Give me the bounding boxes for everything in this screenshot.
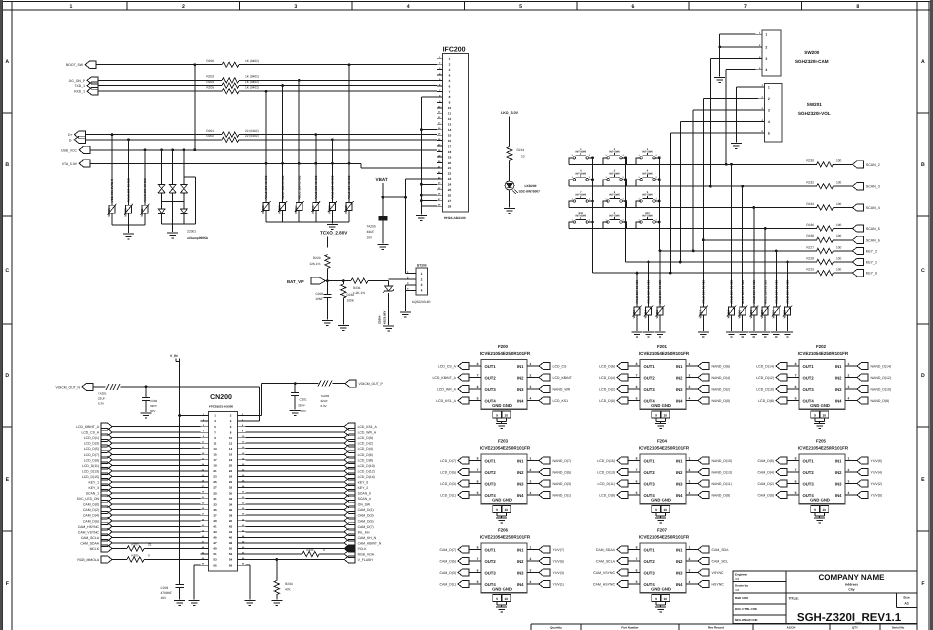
svg-text:R229: R229 (806, 268, 814, 272)
svg-text:C200: C200 (315, 292, 323, 296)
svg-text:Engineer: Engineer (735, 573, 748, 577)
svg-text:IN4: IN4 (676, 582, 683, 587)
svg-text:42: 42 (229, 525, 233, 529)
svg-text:10NF: 10NF (315, 297, 323, 301)
svg-text:SCAN_4: SCAN_4 (358, 497, 371, 501)
svg-text:IN1: IN1 (676, 547, 683, 552)
svg-text:5: 5 (477, 491, 479, 495)
svg-text:7: 7 (744, 4, 747, 10)
svg-text:KEY_2: KEY_2 (358, 486, 369, 490)
svg-text:1: 1 (848, 456, 850, 460)
svg-text:1K (0402): 1K (0402) (245, 75, 259, 79)
svg-text:21: 21 (448, 166, 452, 170)
svg-text:R203: R203 (206, 75, 214, 79)
svg-text:ICVE21054E250R101FR: ICVE21054E250R101FR (480, 351, 531, 356)
svg-text:21: 21 (213, 469, 217, 473)
svg-text:1: 1 (421, 272, 423, 276)
svg-text:Part Number: Part Number (621, 626, 639, 630)
svg-text:VR207: VR207 (294, 205, 298, 214)
svg-text:LCD_D(10): LCD_D(10) (756, 388, 774, 392)
svg-text:C203: C203 (161, 586, 169, 590)
svg-text:LCD_D(5): LCD_D(5) (440, 471, 456, 475)
svg-text:10V: 10V (161, 596, 168, 600)
svg-text:CAM_D(5): CAM_D(5) (358, 519, 374, 523)
svg-text:LCD_KS1_A: LCD_KS1_A (358, 425, 378, 429)
svg-text:INT-SW6: INT-SW6 (576, 151, 587, 154)
svg-text:INT-SW6: INT-SW6 (609, 194, 620, 197)
svg-text:OUT1: OUT1 (644, 547, 656, 552)
svg-text:LCD_D(11): LCD_D(11) (598, 482, 615, 486)
svg-text:LCD_KS1: LCD_KS1 (553, 399, 569, 403)
svg-text:AVLC 160-03 063: AVLC 160-03 063 (143, 178, 147, 202)
svg-text:36: 36 (229, 508, 233, 512)
svg-text:C: C (5, 268, 9, 274)
svg-text:4700NF: 4700NF (161, 591, 172, 595)
svg-text:SCAN_6: SCAN_6 (866, 238, 880, 242)
svg-text:2: 2 (530, 557, 532, 561)
svg-text:50V: 50V (301, 409, 306, 413)
svg-text:4: 4 (530, 491, 532, 495)
svg-text:INT-SW6: INT-SW6 (642, 172, 653, 175)
svg-text:8: 8 (795, 362, 797, 366)
svg-text:GND GND: GND GND (651, 403, 671, 408)
svg-text:12K,1%: 12K,1% (309, 262, 320, 266)
svg-text:RGB_MMOLA: RGB_MMOLA (77, 558, 99, 562)
svg-text:IN3: IN3 (517, 387, 524, 392)
svg-text:IN3: IN3 (676, 387, 683, 392)
svg-text:26: 26 (229, 480, 233, 484)
svg-text:24: 24 (448, 183, 452, 187)
svg-text:CAM_D(1): CAM_D(1) (439, 583, 456, 587)
svg-text:8: 8 (477, 456, 479, 460)
svg-text:KEY_0: KEY_0 (358, 481, 369, 485)
svg-text:R203: R203 (131, 543, 139, 547)
svg-text:52: 52 (229, 552, 233, 556)
svg-text:100: 100 (836, 268, 842, 272)
svg-text:AVLC 160-03 063: AVLC 160-03 063 (786, 280, 790, 304)
svg-text:CAM_SDAA: CAM_SDAA (80, 541, 99, 545)
svg-text:CAM_SCLA: CAM_SCLA (81, 536, 100, 540)
svg-text:NAND_D(3): NAND_D(3) (553, 482, 572, 486)
svg-text:100: 100 (836, 234, 842, 238)
svg-text:2: 2 (530, 468, 532, 472)
svg-text:OUT3: OUT3 (803, 387, 815, 392)
svg-text:12: 12 (229, 441, 233, 445)
svg-text:4: 4 (689, 580, 691, 584)
svg-text:LCD_D(0): LCD_D(0) (599, 399, 615, 403)
svg-text:VOICM_OUT_N: VOICM_OUT_N (56, 385, 81, 389)
svg-text:GND GND: GND GND (492, 403, 512, 408)
svg-text:5: 5 (449, 79, 451, 83)
svg-text:NAND_WR: NAND_WR (553, 388, 571, 392)
svg-text:YUV(2): YUV(2) (871, 482, 882, 486)
svg-text:AVLC 160-03 063: AVLC 160-03 063 (127, 178, 131, 202)
svg-text:LCD_D(13): LCD_D(13) (82, 469, 99, 473)
svg-text:VR210: VR210 (124, 208, 128, 217)
svg-text:RXD_1: RXD_1 (74, 90, 85, 94)
svg-text:R238: R238 (806, 234, 814, 238)
svg-text:8: 8 (477, 362, 479, 366)
svg-text:AVLC 160-03 063: AVLC 160-03 063 (763, 280, 767, 304)
svg-text:48: 48 (229, 541, 233, 545)
svg-text:3: 3 (848, 479, 850, 483)
svg-text:SCAN_2: SCAN_2 (866, 163, 880, 167)
svg-text:NAND_D(14): NAND_D(14) (871, 365, 892, 369)
svg-text:SCAN_1: SCAN_1 (86, 492, 99, 496)
svg-text:43: 43 (213, 530, 217, 534)
svg-text:TITLE:: TITLE: (789, 597, 799, 601)
svg-text:City: City (848, 587, 854, 591)
svg-text:OUT1: OUT1 (644, 458, 656, 463)
svg-text:8: 8 (636, 456, 638, 460)
svg-text:F206: F206 (498, 528, 509, 533)
svg-text:LCD_D(3): LCD_D(3) (440, 482, 456, 486)
svg-text:F205: F205 (816, 439, 827, 444)
svg-text:16: 16 (448, 139, 452, 143)
svg-text:8: 8 (636, 545, 638, 549)
svg-text:C: C (921, 268, 925, 274)
svg-text:2: 2 (530, 373, 532, 377)
svg-text:100: 100 (836, 159, 842, 163)
svg-text:HSYNC: HSYNC (712, 583, 725, 587)
svg-text:D+: D+ (68, 133, 72, 137)
svg-text:OUT1: OUT1 (485, 458, 497, 463)
svg-text:Quantity: Quantity (550, 626, 562, 630)
svg-text:r04: r04 (735, 577, 740, 581)
svg-text:SCAN_4: SCAN_4 (866, 206, 880, 210)
svg-text:5: 5 (768, 131, 770, 135)
svg-text:2: 2 (768, 97, 770, 101)
svg-text:VR208: VR208 (311, 205, 315, 214)
svg-text:6: 6 (636, 568, 638, 572)
svg-text:SW200: SW200 (804, 50, 820, 55)
svg-text:IN4: IN4 (517, 398, 524, 403)
svg-text:IN1: IN1 (517, 458, 524, 463)
svg-text:OUT1: OUT1 (644, 364, 656, 369)
svg-text:27: 27 (448, 199, 452, 203)
svg-text:VTA_5.0V: VTA_5.0V (62, 162, 78, 166)
svg-text:LCD_D(7): LCD_D(7) (84, 453, 99, 457)
svg-text:6.3V: 6.3V (321, 404, 327, 408)
svg-text:R231: R231 (353, 286, 361, 290)
svg-text:GND GND: GND GND (651, 587, 671, 592)
svg-text:LCD_D(12): LCD_D(12) (358, 469, 375, 473)
svg-text:9: 9 (814, 508, 816, 512)
svg-text:44: 44 (229, 530, 233, 534)
svg-text:OUT3: OUT3 (644, 481, 656, 486)
svg-text:13: 13 (213, 447, 217, 451)
svg-text:100: 100 (836, 181, 842, 185)
svg-text:CAM_D(2): CAM_D(2) (83, 508, 99, 512)
svg-text:33UF: 33UF (367, 230, 375, 234)
svg-text:V_FLASH: V_FLASH (358, 558, 374, 562)
svg-text:8: 8 (636, 362, 638, 366)
svg-text:D-: D- (69, 138, 73, 142)
svg-text:LCD_D(1): LCD_D(1) (440, 494, 456, 498)
svg-text:IFC200: IFC200 (443, 47, 466, 54)
svg-text:IN3: IN3 (835, 481, 842, 486)
svg-text:LCD_D(9): LCD_D(9) (599, 494, 615, 498)
svg-text:41: 41 (213, 525, 217, 529)
svg-text:OUT2: OUT2 (485, 470, 497, 475)
svg-text:22 (0402): 22 (0402) (245, 134, 259, 138)
svg-text:17: 17 (448, 144, 452, 148)
svg-text:47: 47 (213, 541, 217, 545)
svg-text:KQ52233-3R: KQ52233-3R (412, 300, 431, 304)
svg-text:QTY: QTY (852, 626, 858, 630)
svg-text:CAM_SCLA: CAM_SCLA (596, 560, 616, 564)
svg-text:2: 2 (848, 373, 850, 377)
svg-text:50: 50 (229, 547, 233, 551)
svg-text:1: 1 (765, 33, 767, 37)
svg-text:KEY_1: KEY_1 (88, 481, 99, 485)
svg-text:OUT3: OUT3 (485, 570, 497, 575)
svg-text:10: 10 (504, 597, 508, 601)
svg-text:AVLC 160-03 063: AVLC 160-03 063 (702, 280, 706, 304)
svg-text:LCD_D(11): LCD_D(11) (82, 464, 99, 468)
svg-text:AVLC 160-03 063: AVLC 160-03 063 (314, 175, 318, 199)
svg-text:R235: R235 (306, 548, 314, 552)
svg-text:OUT3: OUT3 (803, 481, 815, 486)
svg-text:10: 10 (822, 508, 826, 512)
svg-text:CAM_D(0): CAM_D(0) (83, 503, 99, 507)
svg-text:15: 15 (448, 134, 452, 138)
svg-text:CAM_D(6): CAM_D(6) (757, 459, 774, 463)
svg-text:IN2: IN2 (676, 375, 683, 380)
svg-text:CAM_VSYNC: CAM_VSYNC (78, 530, 100, 534)
svg-text:51: 51 (213, 552, 217, 556)
svg-text:10: 10 (448, 106, 452, 110)
svg-text:BT200: BT200 (417, 263, 427, 267)
svg-text:A1/CH: A1/CH (787, 626, 796, 630)
svg-text:3: 3 (530, 568, 532, 572)
svg-text:AVLC 160-03 063: AVLC 160-03 063 (658, 280, 662, 304)
svg-text:50V: 50V (150, 409, 155, 413)
svg-text:IN2: IN2 (676, 470, 683, 475)
svg-text:CAM_KH_N: CAM_KH_N (358, 536, 377, 540)
svg-text:IN2: IN2 (517, 375, 524, 380)
svg-text:ICVE21054E250R101FR: ICVE21054E250R101FR (480, 534, 531, 539)
svg-text:CAM_SDAA: CAM_SDAA (596, 548, 616, 552)
svg-text:30: 30 (229, 491, 233, 495)
svg-text:YUV(0): YUV(0) (871, 494, 882, 498)
svg-text:FPC55531-K5000: FPC55531-K5000 (209, 405, 234, 409)
svg-text:3: 3 (689, 385, 691, 389)
svg-text:LCD_D(5): LCD_D(5) (84, 447, 99, 451)
svg-text:LCD_D(10): LCD_D(10) (358, 464, 375, 468)
svg-text:14: 14 (229, 447, 233, 451)
svg-text:ICVE21054E250R101FR: ICVE21054E250R101FR (798, 445, 849, 450)
svg-text:7: 7 (477, 373, 479, 377)
svg-text:4: 4 (421, 289, 423, 293)
svg-text:10: 10 (504, 414, 508, 418)
svg-text:TA201: TA201 (98, 392, 107, 396)
svg-text:R229: R229 (313, 256, 321, 260)
svg-text:YUV(1): YUV(1) (553, 583, 564, 587)
svg-text:KDZ6.8EV: KDZ6.8EV (383, 310, 387, 324)
svg-text:24: 24 (229, 475, 233, 479)
svg-text:LCD_D(8): LCD_D(8) (758, 399, 774, 403)
svg-text:3: 3 (530, 479, 532, 483)
svg-text:LKD200: LKD200 (525, 184, 537, 188)
svg-text:VR212: VR212 (344, 205, 348, 214)
svg-text:53: 53 (213, 558, 217, 562)
svg-text:OUT2: OUT2 (644, 559, 656, 564)
svg-text:LCD_CS_A: LCD_CS_A (438, 365, 457, 369)
svg-text:R&D CHK: R&D CHK (735, 596, 749, 600)
svg-text:6: 6 (477, 385, 479, 389)
svg-text:LCD_D(14): LCD_D(14) (358, 475, 375, 479)
svg-text:2: 2 (449, 63, 451, 67)
svg-text:6: 6 (636, 479, 638, 483)
svg-text:AVLC 160-03 063: AVLC 160-03 063 (647, 280, 651, 304)
svg-text:7: 7 (636, 557, 638, 561)
svg-text:7: 7 (477, 468, 479, 472)
svg-text:CAM_D(0): CAM_D(0) (757, 494, 774, 498)
svg-text:IN2: IN2 (517, 559, 524, 564)
svg-text:1: 1 (530, 362, 532, 366)
svg-text:R205: R205 (206, 85, 214, 89)
svg-text:F: F (921, 581, 924, 587)
svg-text:VR206: VR206 (738, 310, 742, 319)
svg-text:1: 1 (689, 362, 691, 366)
svg-text:39: 39 (213, 519, 217, 523)
svg-text:BAT_VF: BAT_VF (287, 279, 304, 284)
svg-text:4: 4 (765, 68, 767, 72)
svg-text:100: 100 (836, 245, 842, 249)
svg-text:2: 2 (765, 45, 767, 49)
svg-text:F201: F201 (657, 344, 668, 349)
svg-text:VR217: VR217 (698, 310, 702, 319)
svg-text:NAND_D(2): NAND_D(2) (712, 388, 731, 392)
svg-text:6: 6 (477, 568, 479, 572)
svg-text:R205: R205 (131, 554, 139, 558)
svg-text:VSYNC: VSYNC (712, 571, 725, 575)
svg-text:R213: R213 (517, 148, 525, 152)
svg-text:CAM_D(4): CAM_D(4) (83, 514, 99, 518)
svg-text:5: 5 (636, 491, 638, 495)
svg-text:20: 20 (229, 464, 233, 468)
svg-text:31: 31 (213, 497, 217, 501)
svg-text:LCD_D(4): LCD_D(4) (599, 376, 615, 380)
svg-text:R230: R230 (806, 159, 814, 163)
svg-text:LCD_D(2): LCD_D(2) (599, 388, 615, 392)
svg-text:VR208: VR208 (760, 310, 764, 319)
svg-text:AVLC 160-03 063: AVLC 160-03 063 (297, 175, 301, 199)
svg-text:Serial No: Serial No (892, 626, 905, 630)
svg-text:8: 8 (856, 4, 859, 10)
svg-text:28: 28 (448, 205, 452, 209)
svg-text:6: 6 (477, 479, 479, 483)
svg-text:YUV(3): YUV(3) (553, 571, 564, 575)
svg-text:AVLC 160-03 063: AVLC 160-03 063 (264, 175, 268, 199)
svg-text:LCD_D(4): LCD_D(4) (358, 447, 373, 451)
svg-text:10: 10 (504, 508, 508, 512)
svg-text:7: 7 (449, 90, 451, 94)
svg-text:V_IN: V_IN (170, 354, 178, 358)
svg-text:IN3: IN3 (676, 570, 683, 575)
svg-text:10: 10 (663, 414, 667, 418)
svg-text:6: 6 (449, 84, 451, 88)
svg-text:YUV(7): YUV(7) (553, 548, 564, 552)
svg-text:VR209: VR209 (783, 310, 787, 319)
svg-text:uClamp0505A: uClamp0505A (187, 236, 209, 240)
svg-text:Address: Address (845, 583, 858, 587)
svg-text:CAM_HSYNC: CAM_HSYNC (593, 583, 615, 587)
svg-text:LCD_CS_A: LCD_CS_A (81, 431, 99, 435)
svg-text:6: 6 (636, 385, 638, 389)
svg-text:14: 14 (448, 128, 452, 132)
svg-text:YUV(6): YUV(6) (871, 459, 882, 463)
svg-text:NAND_D(15): NAND_D(15) (712, 459, 733, 463)
svg-text:17: 17 (213, 458, 217, 462)
svg-text:NAND_D(8): NAND_D(8) (871, 399, 890, 403)
svg-text:2: 2 (182, 4, 185, 10)
svg-text:2: 2 (421, 278, 423, 282)
svg-text:VR203: VR203 (107, 208, 111, 217)
svg-text:F200: F200 (498, 344, 509, 349)
svg-text:AVLC 160-03 063: AVLC 160-03 063 (281, 175, 285, 199)
svg-text:IN3: IN3 (517, 481, 524, 486)
svg-text:6: 6 (795, 479, 797, 483)
svg-text:6: 6 (632, 4, 635, 10)
svg-text:OUT1: OUT1 (803, 458, 815, 463)
svg-text:16: 16 (229, 453, 233, 457)
svg-text:47K: 47K (285, 588, 292, 592)
svg-text:22UF: 22UF (321, 399, 329, 403)
svg-text:4: 4 (530, 396, 532, 400)
svg-text:SGHZ320I-CAM: SGHZ320I-CAM (795, 59, 829, 64)
svg-text:OUT3: OUT3 (644, 387, 656, 392)
svg-text:1K (0402): 1K (0402) (245, 59, 259, 63)
svg-text:YUV(4): YUV(4) (871, 471, 882, 475)
svg-text:5: 5 (795, 396, 797, 400)
svg-text:A: A (921, 59, 925, 65)
svg-text:9: 9 (496, 597, 498, 601)
svg-text:Rev Record: Rev Record (708, 626, 724, 630)
svg-text:33: 33 (213, 502, 217, 506)
svg-text:7: 7 (795, 373, 797, 377)
svg-text:IN2: IN2 (517, 470, 524, 475)
svg-text:R228: R228 (806, 256, 814, 260)
svg-text:r04: r04 (735, 588, 740, 592)
svg-text:22UF: 22UF (98, 397, 106, 401)
svg-text:LCD_D(7): LCD_D(7) (440, 459, 456, 463)
svg-text:20: 20 (448, 161, 452, 165)
svg-text:R236: R236 (806, 223, 814, 227)
svg-text:INT-SW6: INT-SW6 (642, 215, 653, 218)
svg-text:7: 7 (636, 373, 638, 377)
svg-text:2: 2 (689, 557, 691, 561)
svg-text:AVLC 160-03 063: AVLC 160-03 063 (752, 280, 756, 304)
svg-text:INT-SW6: INT-SW6 (609, 172, 620, 175)
svg-text:100: 100 (836, 223, 842, 227)
svg-text:26: 26 (448, 194, 452, 198)
svg-text:C202: C202 (150, 399, 158, 403)
svg-text:KEY_0: KEY_0 (866, 272, 877, 276)
svg-text:9: 9 (655, 414, 657, 418)
svg-text:INT-SW6: INT-SW6 (609, 151, 620, 154)
svg-text:23: 23 (213, 475, 217, 479)
svg-text:D: D (5, 373, 9, 379)
svg-text:IN4: IN4 (517, 582, 524, 587)
svg-text:IN1: IN1 (676, 364, 683, 369)
svg-text:2: 2 (848, 468, 850, 472)
svg-text:KEY_1: KEY_1 (866, 261, 877, 265)
svg-text:HH24-AD2100: HH24-AD2100 (444, 216, 466, 220)
svg-text:11: 11 (448, 112, 452, 116)
svg-text:LCD_WR_A: LCD_WR_A (358, 431, 377, 435)
